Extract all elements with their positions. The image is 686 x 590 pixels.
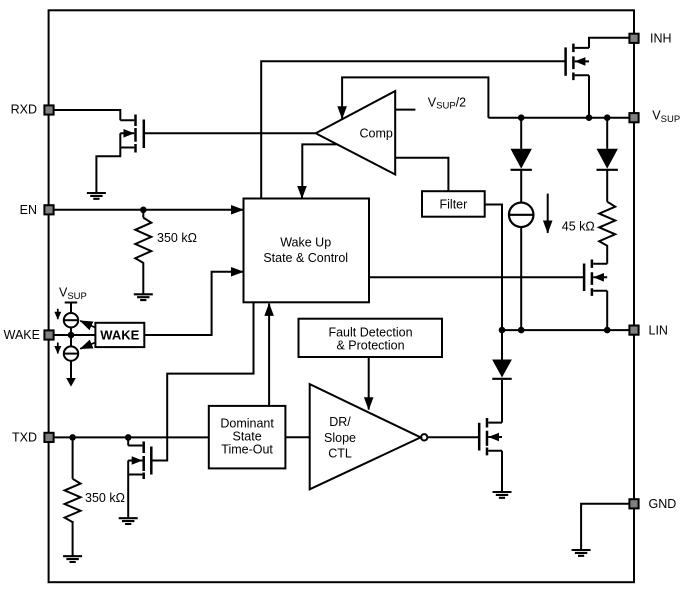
svg-text:INH: INH: [650, 32, 672, 46]
wire D1 to current source I3: [520, 170, 522, 203]
svg-text:VSUP: VSUP: [652, 109, 680, 126]
svg-text:350 kΩ: 350 kΩ: [157, 231, 197, 245]
pin EN: [44, 205, 53, 214]
svg-text:& Protection: & Protection: [336, 338, 404, 352]
control arrow WAKE box to I1: [80, 321, 95, 328]
wire VSUP rail to D2: [606, 118, 608, 149]
transistor Q2 TXD input MOSFET: [128, 442, 151, 480]
svg-text:VSUP: VSUP: [59, 286, 87, 302]
junction WAKE node: [68, 332, 75, 339]
wire D3 to Q5 drain: [501, 380, 503, 423]
wire VSUP bar to current source I1: [70, 303, 72, 314]
svg-text:Time-Out: Time-Out: [221, 443, 273, 457]
junction TXD/R2: [69, 434, 76, 441]
wire Wake Up output to Q4 gate: [369, 276, 584, 278]
wire Dominant box to Wake Up block bottom (arrow): [268, 304, 270, 406]
svg-text:45 kΩ: 45 kΩ: [562, 220, 595, 234]
svg-text:DR/: DR/: [329, 415, 351, 429]
ground (Q2 source): [119, 518, 138, 524]
small current arrow beside I1: [57, 309, 59, 319]
wire comparator output to Filter: [395, 158, 448, 192]
block U6 Dominant State Time-Out: [209, 406, 286, 469]
wire EN pin to Wake Up block (arrow): [54, 209, 244, 211]
pin WAKE: [44, 330, 53, 339]
wire Q4 source to LIN rail: [606, 291, 608, 330]
control arrow WAKE box to I2: [80, 342, 95, 348]
svg-text:Comp: Comp: [360, 126, 393, 140]
inverter bubble on U2 output: [421, 434, 427, 440]
resistor R1 350 kOhm (EN pulldown): [135, 218, 151, 263]
svg-text:Fault Detection: Fault Detection: [328, 325, 412, 339]
wire comparator Vsup/2 reference stub: [395, 109, 415, 111]
block WAKE comparator cell: [95, 323, 144, 347]
block U3 Wake Up State & Control: [244, 199, 370, 303]
transistor Q1 RXD output MOSFET: [120, 115, 144, 153]
current source I1 (wake pull-up): [64, 313, 78, 327]
wire D2 to R3: [606, 170, 608, 202]
current source I3 (LIN bias): [509, 203, 534, 228]
wire RXD pin to Q1 drain: [54, 110, 121, 120]
ground (Q1 source): [87, 193, 106, 199]
svg-text:GND: GND: [649, 497, 677, 511]
wire R3 to Q4 drain: [606, 245, 608, 264]
pin VSUP: [629, 113, 638, 122]
junction LIN/D3: [499, 327, 506, 334]
wire R1 top from EN node: [142, 210, 144, 218]
junction VSUP/D1: [518, 114, 525, 121]
wire R2 bottom to ground: [72, 521, 74, 556]
svg-text:350 kΩ: 350 kΩ: [85, 491, 125, 505]
ground (R1 bottom): [134, 294, 153, 300]
junction VSUP/Q3 source: [586, 114, 593, 121]
pin INH: [629, 34, 638, 43]
wire DR/Slope CTL output to Q5 gate: [427, 436, 479, 438]
svg-text:Slope: Slope: [324, 431, 356, 445]
ground (Q5 source): [493, 492, 512, 498]
wire Q2 gate to Wake Up block bottom: [151, 302, 253, 460]
svg-text:Wake Up: Wake Up: [280, 236, 331, 250]
current direction arrow for I3: [547, 194, 549, 233]
wire Filter output to LIN rail: [485, 205, 502, 331]
small current arrow beside I2: [57, 343, 59, 354]
ground (R2 bottom): [63, 556, 82, 562]
wire INH MOSFET drain to INH pin: [589, 38, 629, 48]
svg-text:LIN: LIN: [649, 324, 668, 338]
current source I2 (wake pull-down): [64, 346, 78, 360]
junction LIN/Q4: [604, 327, 611, 334]
wire VSUP pin rail: [488, 117, 629, 119]
wire Q5 source/body to ground: [501, 451, 503, 492]
wire Q2 source/body to ground: [127, 461, 129, 519]
svg-text:TXD: TXD: [12, 431, 37, 445]
svg-text:Filter: Filter: [440, 198, 468, 212]
pin RXD: [44, 105, 53, 114]
wire WAKE pin to WAKE cell: [54, 334, 96, 336]
op-amp U1 Comp (receiver comparator): [316, 91, 396, 175]
svg-text:CTL: CTL: [328, 446, 352, 460]
wire Wake Up top to INH gate: [261, 61, 565, 198]
junction VSUP/D2: [604, 114, 611, 121]
pin TXD: [44, 433, 53, 442]
ground (GND pin): [572, 550, 591, 556]
node VSUP terminal bar (WAKE cell): [65, 302, 78, 304]
svg-text:EN: EN: [20, 203, 37, 217]
resistor R3 45 kOhm (LIN pull-up): [599, 202, 615, 246]
transistor Q5 LIN driver MOSFET: [479, 418, 502, 455]
diode D3 (LIN driver): [492, 360, 512, 379]
resistor R2 350 kOhm (TXD pulldown): [65, 479, 81, 522]
svg-text:WAKE: WAKE: [100, 327, 139, 342]
block U5 Fault Detection & Protection: [299, 319, 443, 357]
block U4 Filter: [422, 191, 485, 217]
wire INH MOSFET source to VSUP rail: [588, 75, 590, 117]
wire WAKE cell output to Wake Up block (arrow): [144, 272, 233, 335]
buffer U2 DR/Slope CTL driver: [310, 384, 421, 489]
wire VSUP rail to D1: [520, 118, 522, 149]
pin GND: [629, 499, 638, 508]
wire LIN node to D3: [501, 330, 503, 359]
wire LIN rail to LIN pin: [502, 329, 629, 331]
diode D2 (45 kOhm branch): [597, 149, 618, 170]
wire current source I3 to LIN rail: [520, 227, 522, 330]
junction EN/R1: [140, 207, 147, 214]
svg-text:State & Control: State & Control: [263, 251, 348, 265]
transistor Q3 INH high-side MOSFET: [566, 44, 589, 81]
wire TXD node to Q2 drain: [127, 437, 129, 445]
wire I1 to I2 through WAKE node: [70, 327, 72, 346]
wire LIN sense to comparator input (arrow): [342, 77, 488, 117]
svg-text:WAKE: WAKE: [4, 328, 40, 342]
wire I2 down to arrow terminal: [70, 361, 72, 378]
transistor Q4 LIN pull-up MOSFET: [584, 260, 607, 296]
wire comparator lower tap into Wake Up top (arrow): [302, 144, 336, 188]
wire Dominant box to DR/Slope CTL: [285, 436, 309, 438]
wire Q1 gate to comparator output node: [144, 132, 316, 134]
junction LIN/I3: [518, 327, 525, 334]
svg-text:State: State: [233, 429, 262, 443]
wire GND pin to ground: [581, 504, 629, 550]
svg-text:Dominant: Dominant: [220, 416, 274, 430]
wire R1 bottom to ground: [142, 262, 144, 294]
svg-text:VSUP/2: VSUP/2: [428, 95, 466, 111]
wire TXD pin to Dominant State Time-Out: [54, 436, 209, 438]
wire Q1 source/body to ground: [96, 133, 120, 193]
pin LIN: [629, 326, 638, 335]
wire Fault box to DR/Slope CTL (arrow): [368, 357, 370, 410]
arrow terminal below I2: [66, 378, 76, 387]
junction TXD/Q2: [125, 434, 132, 441]
wire R2 top from TXD node: [72, 437, 74, 478]
diode D1 (current source branch): [511, 149, 532, 170]
svg-text:RXD: RXD: [11, 103, 37, 117]
